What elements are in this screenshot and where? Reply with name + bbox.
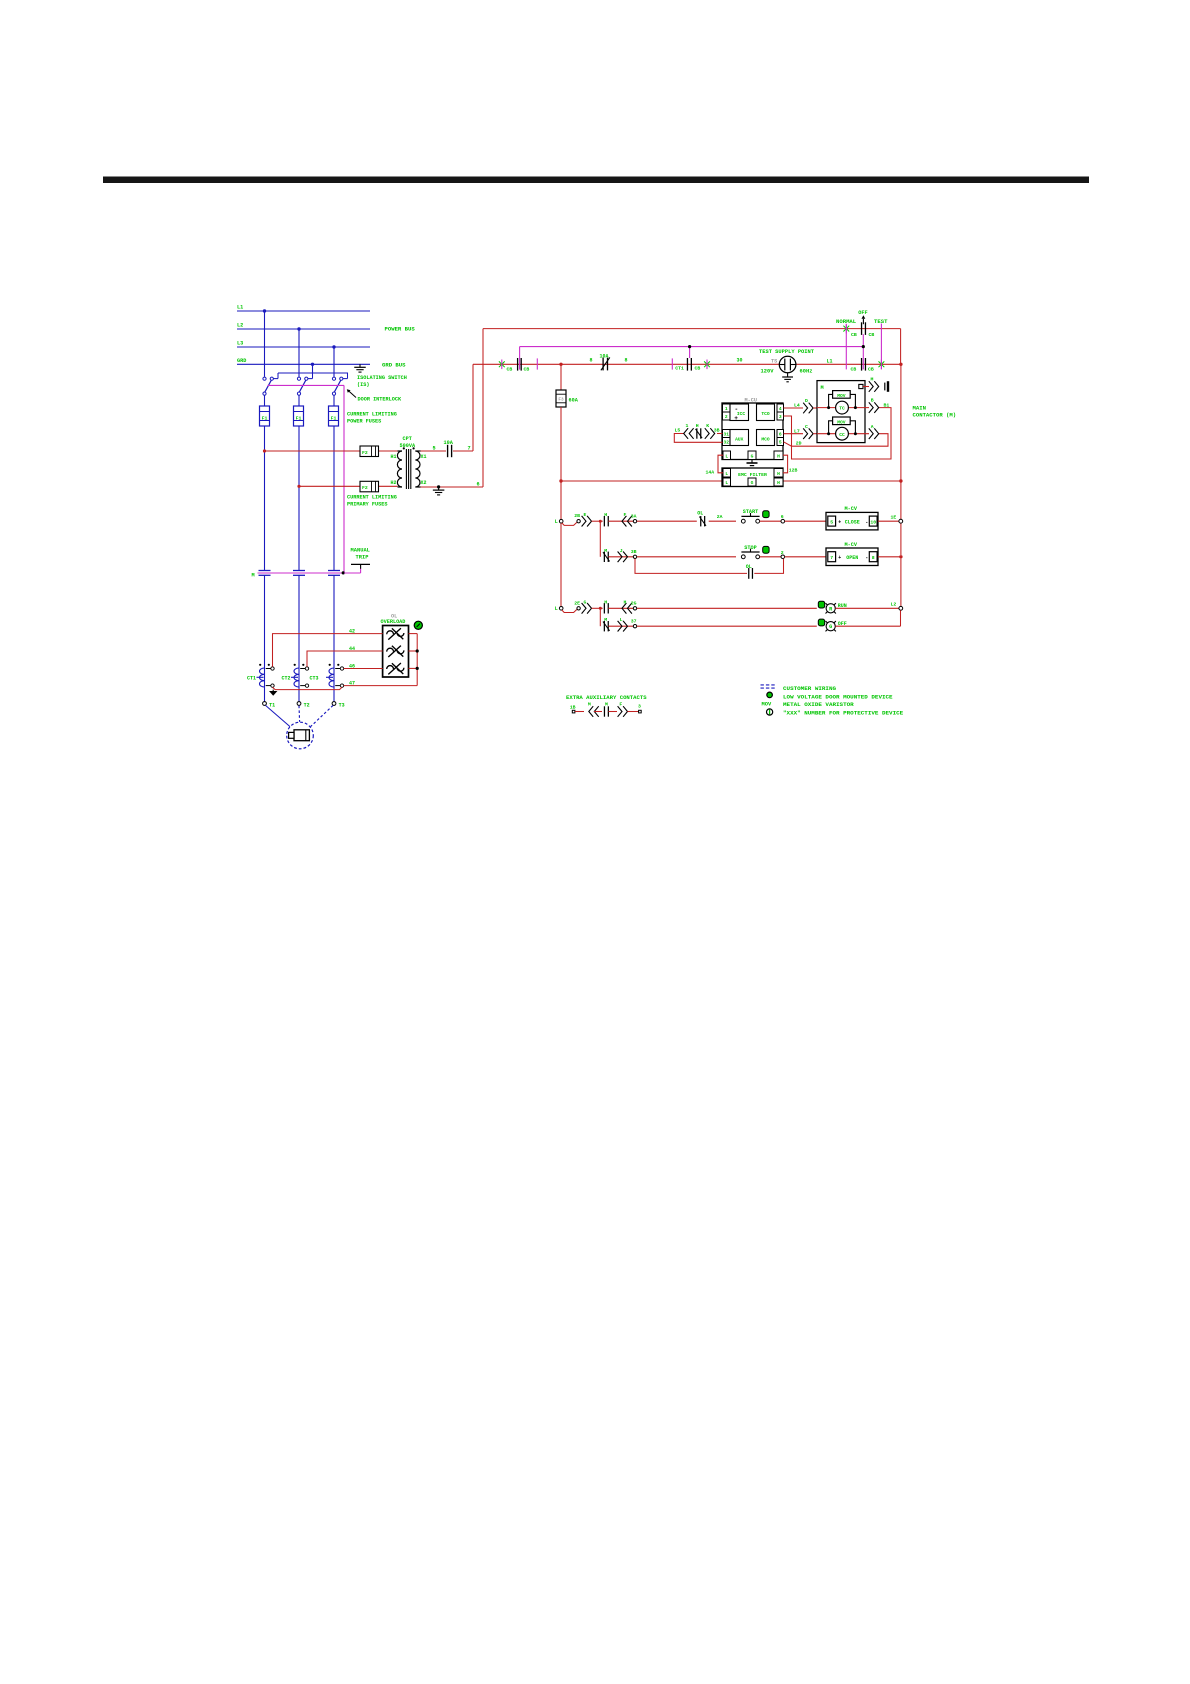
svg-text:1B: 1B [570,705,576,711]
svg-text:M: M [604,548,607,554]
svg-text:+: + [838,520,841,526]
svg-text:+: + [838,555,841,561]
svg-text:L2: L2 [237,323,243,329]
svg-text:1: 1 [686,423,689,429]
svg-text:L: L [555,606,558,612]
svg-text:TS: TS [771,359,777,365]
svg-text:10A: 10A [600,353,609,359]
svg-text:7: 7 [830,555,833,561]
svg-text:L1: L1 [827,359,833,365]
svg-text:2A: 2A [717,514,723,520]
svg-text:CT1: CT1 [675,366,684,372]
svg-text:L: L [725,471,728,477]
svg-text:OFF: OFF [858,310,867,316]
svg-text:M: M [604,617,607,623]
svg-text:AUX: AUX [735,436,744,442]
svg-text:8: 8 [625,358,628,364]
svg-text:DOOR INTERLOCK: DOOR INTERLOCK [358,396,402,402]
svg-text:F: F [619,702,622,708]
svg-text:7: 7 [468,446,471,452]
svg-text:500VA: 500VA [400,443,416,449]
svg-text:H: H [696,423,699,429]
svg-text:H: H [777,480,780,486]
svg-text:3A: 3A [631,514,637,520]
svg-text:ISOLATING SWITCH: ISOLATING SWITCH [357,375,407,381]
svg-text:F: F [624,512,627,518]
svg-text:3B: 3B [714,428,720,434]
svg-text:5: 5 [830,520,833,526]
svg-text:F2: F2 [362,485,368,491]
svg-text:3: 3 [779,414,782,420]
svg-text:START: START [743,509,759,515]
svg-text:L4: L4 [794,403,800,409]
svg-text:LOW VOLTAGE DOOR MOUNTED DEVIC: LOW VOLTAGE DOOR MOUNTED DEVICE [783,694,893,701]
svg-text:K: K [706,423,709,429]
svg-text:14A: 14A [706,469,715,475]
svg-text:J: J [620,548,623,554]
svg-text:T3: T3 [339,703,345,709]
svg-text:8: 8 [590,358,593,364]
svg-text:MOV: MOV [762,702,772,708]
svg-text:(IS): (IS) [357,382,369,388]
svg-text:L: L [620,617,623,623]
svg-text:L2: L2 [891,602,897,608]
svg-text:PRIMARY FUSES: PRIMARY FUSES [347,502,387,508]
svg-text:B1: B1 [884,403,890,409]
svg-text:CT3: CT3 [310,676,319,682]
svg-text:OL: OL [746,564,752,570]
svg-text:F1: F1 [331,415,337,421]
svg-text:L: L [725,480,728,486]
svg-text:CB: CB [868,367,874,373]
svg-text:CB: CB [851,332,857,338]
svg-text:M-CV: M-CV [845,506,858,512]
svg-text:CB: CB [869,332,875,338]
svg-text:32: 32 [724,440,730,446]
svg-text:G: G [584,599,587,605]
svg-text:H: H [777,454,780,460]
svg-text:L5: L5 [675,428,681,434]
svg-text:POWER BUS: POWER BUS [385,326,416,333]
svg-text:G: G [751,480,754,486]
svg-text:TC: TC [839,406,845,412]
svg-text:C: C [805,424,808,430]
svg-text:CB: CB [507,367,513,373]
svg-text:10: 10 [870,520,876,526]
svg-text:EXTRA AUXILIARY CONTACTS: EXTRA AUXILIARY CONTACTS [566,694,647,701]
svg-text:8: 8 [872,555,875,561]
svg-text:2E: 2E [574,600,580,606]
svg-text:MANUAL: MANUAL [351,548,370,554]
svg-text:GRD: GRD [237,358,246,364]
svg-text:L: L [555,519,558,525]
svg-text:3: 3 [638,704,641,710]
svg-text:F1: F1 [296,415,302,421]
svg-text:M-CU: M-CU [745,398,757,404]
svg-text:44: 44 [349,646,355,652]
svg-text:1: 1 [725,406,728,412]
svg-text:120V: 120V [761,369,775,375]
svg-text:TCO: TCO [761,411,770,417]
svg-text:60A: 60A [569,397,579,403]
svg-text:OL: OL [697,511,703,517]
svg-text:60Hz: 60Hz [800,369,813,375]
svg-text:"XXX" NUMBER FOR PROTECTIVE DE: "XXX" NUMBER FOR PROTECTIVE DEVICE [783,710,904,717]
svg-text:L3: L3 [237,341,243,347]
svg-text:NORMAL: NORMAL [836,318,857,325]
svg-text:-: - [865,520,868,526]
svg-text:L1: L1 [237,305,243,311]
svg-text:G: G [751,454,754,460]
svg-text:H: H [604,512,607,518]
svg-text:H: H [777,471,780,477]
svg-text:E: E [584,512,587,518]
svg-text:42: 42 [349,629,355,635]
svg-text:MOV: MOV [837,419,846,425]
svg-text:H: H [624,599,627,605]
svg-text:A: A [871,424,874,430]
svg-text:G: G [829,624,832,630]
svg-text:6: 6 [779,432,782,438]
svg-text:M-CV: M-CV [845,542,858,548]
svg-text:6: 6 [477,482,480,488]
svg-text:CT1: CT1 [247,676,256,682]
svg-text:MOV: MOV [837,393,846,399]
svg-text:CT2: CT2 [282,676,291,682]
svg-text:2G: 2G [631,601,637,607]
svg-text:F1: F1 [262,415,268,421]
svg-text:L7: L7 [794,428,800,434]
svg-text:L: L [725,454,728,460]
svg-text:2: 2 [725,414,728,420]
svg-text:H2: H2 [391,480,397,486]
svg-text:MAIN: MAIN [913,405,926,412]
svg-text:X1: X1 [421,454,427,460]
svg-text:X2: X2 [421,480,427,486]
svg-text:H: H [604,599,607,605]
svg-text:4: 4 [779,406,782,412]
svg-text:M: M [252,572,255,578]
svg-text:1E: 1E [891,514,897,520]
svg-text:GRD BUS: GRD BUS [382,362,406,369]
svg-text:F2: F2 [362,450,368,456]
svg-text:CB: CB [524,367,530,373]
svg-text:M: M [871,376,874,382]
svg-text:CB: CB [851,367,857,373]
svg-text:30: 30 [737,358,743,364]
svg-text:CONTACTOR (M): CONTACTOR (M) [913,412,957,419]
svg-text:2D: 2D [796,441,802,447]
svg-text:M: M [588,702,591,708]
svg-text:D: D [805,398,808,404]
svg-text:CC: CC [839,432,845,438]
svg-text:47: 47 [349,681,355,687]
svg-text:-: - [865,555,868,561]
svg-text:CUSTOMER WIRING: CUSTOMER WIRING [783,685,836,692]
svg-text:M: M [821,385,824,391]
svg-text:H1: H1 [391,454,397,460]
svg-text:OVERLOAD: OVERLOAD [381,619,406,625]
svg-text:CLOSE: CLOSE [845,520,860,526]
svg-text:37: 37 [631,619,637,625]
svg-text:METAL OXIDE VARISTOR: METAL OXIDE VARISTOR [783,701,854,708]
svg-text:T2: T2 [304,703,310,709]
svg-text:OPEN: OPEN [846,555,858,561]
svg-text:TRIP: TRIP [356,555,369,561]
svg-text:CURRENT LIMITING: CURRENT LIMITING [347,495,397,501]
svg-text:3B: 3B [631,549,637,555]
svg-text:10A: 10A [444,440,454,446]
svg-text:POWER FUSES: POWER FUSES [347,418,381,424]
svg-text:ICC: ICC [737,411,746,417]
svg-text:F3: F3 [558,398,564,403]
svg-text:CB: CB [695,366,701,372]
svg-text:M: M [605,702,608,708]
svg-text:TEST SUPPLY POINT: TEST SUPPLY POINT [759,349,815,355]
svg-text:MCO: MCO [761,436,770,442]
svg-text:2B: 2B [574,513,580,519]
svg-text:46: 46 [349,663,355,669]
svg-text:T1: T1 [269,703,275,709]
svg-text:CPT: CPT [403,436,412,442]
svg-text:5: 5 [433,446,436,452]
svg-text:EMC FILTER: EMC FILTER [738,472,767,478]
svg-text:31: 31 [724,432,730,438]
svg-text:12B: 12B [789,468,798,474]
svg-text:STOP: STOP [744,545,756,551]
svg-text:5: 5 [779,440,782,446]
svg-text:B: B [871,398,874,404]
svg-text:CURRENT LIMITING: CURRENT LIMITING [347,411,397,417]
